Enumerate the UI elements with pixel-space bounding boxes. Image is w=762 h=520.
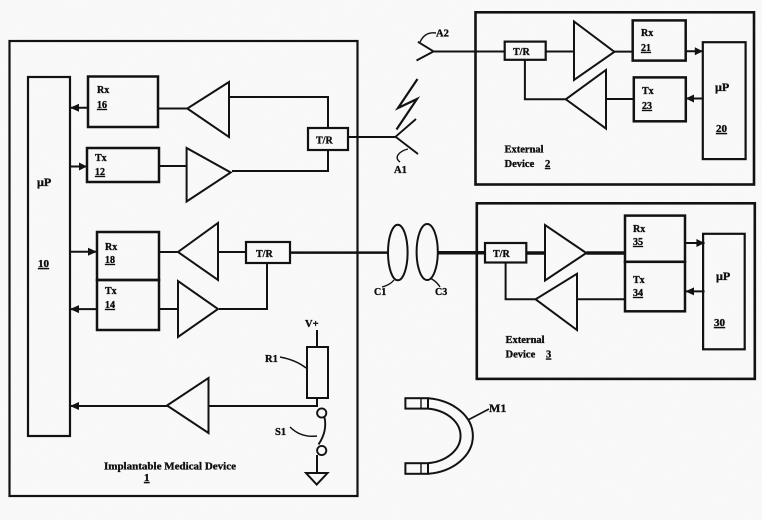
- wire amp to T/R box: [229, 97, 328, 129]
- wire uP to Tx12 with arrowhead: [70, 163, 87, 171]
- transmitter Tx 14: [97, 280, 159, 330]
- wire Rx18 to amp: [159, 251, 179, 253]
- A1 label and leader: [394, 149, 408, 176]
- svg-text:Rx: Rx: [641, 28, 653, 39]
- svg-text:Tx: Tx: [105, 286, 117, 297]
- wire amp to R1/S1 junction: [209, 405, 318, 407]
- wire T/R to transmit amp: [232, 150, 328, 171]
- S1 label and leader: [275, 427, 317, 438]
- svg-text:T/R: T/R: [256, 249, 273, 260]
- V+ stem wire: [316, 330, 318, 347]
- amplifier (telemetry transmit, right-pointing): [178, 281, 218, 337]
- ground: [306, 455, 328, 485]
- svg-text:20: 20: [716, 123, 728, 135]
- svg-text:35: 35: [633, 237, 643, 248]
- wire Tx23 to amp: [606, 98, 634, 100]
- wire Rx21 to uP20 with arrowhead: [686, 47, 703, 55]
- T/R box (external device 3): [485, 243, 526, 263]
- microprocessor uP 20: [703, 42, 746, 159]
- microprocessor uP 30: [703, 234, 745, 349]
- wire Tx14 to amp: [159, 308, 178, 310]
- wire amp to Rx35: [586, 251, 625, 255]
- coil C1: [388, 225, 408, 281]
- external device 2 caption: [505, 145, 551, 171]
- transmitter Tx 12: [87, 148, 159, 182]
- svg-text:R1: R1: [265, 354, 278, 365]
- amplifier (top transmit, right-pointing): [187, 148, 231, 202]
- wire amp to T/R coil box: [218, 251, 246, 253]
- coil C3: [417, 224, 438, 280]
- amplifier (telemetry receive, left-pointing): [178, 223, 218, 280]
- wire amp to T/R: [525, 60, 566, 100]
- svg-text:T/R: T/R: [493, 249, 510, 260]
- receiver Rx 35: [625, 216, 685, 262]
- wire Rx35 to uP30 with arrowhead: [685, 239, 704, 247]
- R1 label and leader: [265, 354, 306, 368]
- svg-text:Rx: Rx: [633, 224, 645, 235]
- external device 3 enclosure: [477, 203, 755, 379]
- microprocessor uP 10: [28, 77, 70, 436]
- receiver Rx 21: [633, 20, 686, 60]
- wire coil C3 to external device 3 T/R: [438, 251, 485, 255]
- amplifier (ext3 transmit, left-pointing): [536, 274, 577, 330]
- svg-text:A1: A1: [394, 165, 407, 176]
- wire antenna A2 to external T/R: [434, 51, 505, 53]
- external device 3 caption: [506, 335, 552, 361]
- wire Tx12 to amp: [159, 165, 187, 167]
- wire T/R to receive amp: [526, 251, 545, 255]
- svg-text:Tx: Tx: [642, 86, 654, 97]
- wire T/R to coil C1: [290, 251, 389, 254]
- wire amp to Rx16: [158, 108, 188, 110]
- svg-text:Tx: Tx: [95, 153, 107, 164]
- external device 2 enclosure: [476, 12, 755, 184]
- svg-text:C3: C3: [435, 287, 447, 298]
- wire T/R to receive amp: [546, 51, 574, 53]
- antenna A1: [396, 119, 419, 154]
- T/R box (coil, implant side): [246, 242, 290, 263]
- wire Tx34 to amp: [577, 298, 625, 300]
- svg-text:M1: M1: [489, 401, 506, 415]
- M1 label and leader: [468, 401, 506, 420]
- transmitter Tx 34: [625, 262, 685, 312]
- amplifier (top receive, left-pointing): [187, 82, 229, 137]
- wire Tx14 to uP with arrowhead: [70, 305, 97, 313]
- wire amp to T/R: [506, 263, 536, 300]
- svg-text:S1: S1: [275, 427, 286, 438]
- svg-text:External: External: [505, 145, 544, 156]
- svg-text:µP: µP: [716, 269, 730, 283]
- svg-text:34: 34: [633, 288, 643, 299]
- T/R box (external device 2): [505, 42, 546, 60]
- receiver Rx 16: [88, 77, 158, 128]
- svg-text:µP: µP: [37, 175, 51, 189]
- svg-text:12: 12: [95, 167, 105, 178]
- wire uP20 to Tx23 with arrowhead: [686, 95, 703, 103]
- svg-text:18: 18: [105, 255, 115, 266]
- svg-text:Device: Device: [506, 350, 536, 361]
- svg-text:Device: Device: [505, 159, 535, 170]
- wire uP30 to Tx34 with arrowhead: [685, 287, 704, 295]
- svg-text:Rx: Rx: [105, 242, 117, 253]
- T/R box (RF, implant side): [308, 128, 348, 150]
- A2 label and leader: [420, 29, 449, 43]
- amplifier (magnet sense, left-pointing): [167, 378, 209, 433]
- implantable medical device caption: [104, 461, 236, 485]
- wire uP to Rx18 with arrowhead: [70, 248, 97, 256]
- svg-text:C1: C1: [374, 287, 386, 298]
- wire T/R to telemetry transmit amp: [219, 263, 267, 309]
- C1 label and leader: [374, 280, 394, 298]
- svg-text:Tx: Tx: [633, 275, 645, 286]
- svg-text:2: 2: [545, 159, 550, 170]
- RF lightning bolt: [397, 79, 418, 130]
- svg-text:14: 14: [105, 300, 115, 311]
- wire amp to Rx21: [614, 51, 632, 53]
- wire Rx16 to uP with arrowhead: [70, 104, 89, 112]
- svg-text:T/R: T/R: [316, 136, 333, 147]
- svg-text:External: External: [506, 335, 545, 346]
- antenna A2: [417, 42, 434, 61]
- svg-text:A2: A2: [436, 29, 449, 40]
- svg-text:30: 30: [714, 317, 726, 329]
- svg-text:1: 1: [144, 472, 150, 484]
- svg-text:V+: V+: [305, 319, 319, 330]
- wire T/R to antenna A1: [348, 136, 396, 138]
- svg-text:Implantable Medical Device: Implantable Medical Device: [104, 461, 236, 473]
- svg-text:16: 16: [97, 100, 107, 111]
- receiver Rx 18: [97, 232, 159, 280]
- svg-text:µP: µP: [715, 80, 729, 94]
- amplifier (ext2 receive, right-pointing): [574, 22, 614, 81]
- wire amp to uP with arrowhead: [70, 402, 168, 410]
- magnet M1: [405, 398, 472, 474]
- wire R1 to junction: [316, 398, 318, 407]
- amplifier (ext2 transmit, left-pointing): [566, 70, 606, 129]
- resistor R1: [307, 347, 328, 398]
- svg-text:10: 10: [38, 258, 50, 270]
- svg-text:21: 21: [641, 43, 651, 54]
- transmitter Tx 23: [634, 77, 686, 121]
- amplifier (ext3 receive, right-pointing): [545, 225, 586, 281]
- switch S1: [317, 408, 326, 455]
- svg-text:23: 23: [642, 101, 652, 112]
- svg-text:3: 3: [546, 350, 551, 361]
- C3 label and leader: [431, 279, 447, 299]
- svg-text:T/R: T/R: [513, 47, 530, 58]
- implantable medical device enclosure: [10, 41, 358, 496]
- svg-text:Rx: Rx: [97, 85, 109, 96]
